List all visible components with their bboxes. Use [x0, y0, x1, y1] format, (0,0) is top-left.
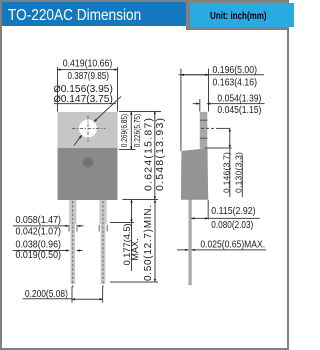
svg-text:0.548(13.93): 0.548(13.93): [155, 118, 166, 191]
svg-text:Ø0.147(3.75): Ø0.147(3.75): [54, 94, 113, 105]
svg-text:0.080(2.03): 0.080(2.03): [211, 220, 253, 231]
svg-text:0.387(9.85): 0.387(9.85): [67, 71, 109, 82]
svg-text:0.146(3.7): 0.146(3.7): [221, 152, 231, 193]
svg-text:MAX.: MAX.: [130, 238, 140, 260]
svg-text:0.019(0.50): 0.019(0.50): [16, 250, 62, 261]
svg-text:0.200(5.08): 0.200(5.08): [25, 289, 68, 300]
svg-text:0.50(12.7)MIN.: 0.50(12.7)MIN.: [143, 205, 154, 281]
svg-text:0.269(6.85): 0.269(6.85): [120, 113, 129, 147]
svg-text:0.419(10.66): 0.419(10.66): [63, 59, 113, 70]
svg-text:0.042(1.07): 0.042(1.07): [16, 227, 62, 238]
svg-text:0.130(3.3): 0.130(3.3): [234, 152, 244, 193]
svg-text:0.058(1.47): 0.058(1.47): [16, 215, 62, 226]
svg-text:0.025(0.65)MAX.: 0.025(0.65)MAX.: [200, 239, 265, 250]
svg-text:0.115(2.92): 0.115(2.92): [211, 206, 255, 217]
svg-text:0.196(5.00): 0.196(5.00): [213, 65, 258, 76]
svg-text:0.054(1.39): 0.054(1.39): [217, 93, 261, 104]
svg-text:0.038(0.96): 0.038(0.96): [16, 240, 62, 251]
svg-text:0.624(15.87): 0.624(15.87): [144, 118, 155, 191]
svg-text:0.045(1.15): 0.045(1.15): [217, 105, 261, 116]
svg-text:0.163(4.16): 0.163(4.16): [213, 77, 258, 88]
svg-text:0.226(5.75): 0.226(5.75): [133, 113, 142, 147]
